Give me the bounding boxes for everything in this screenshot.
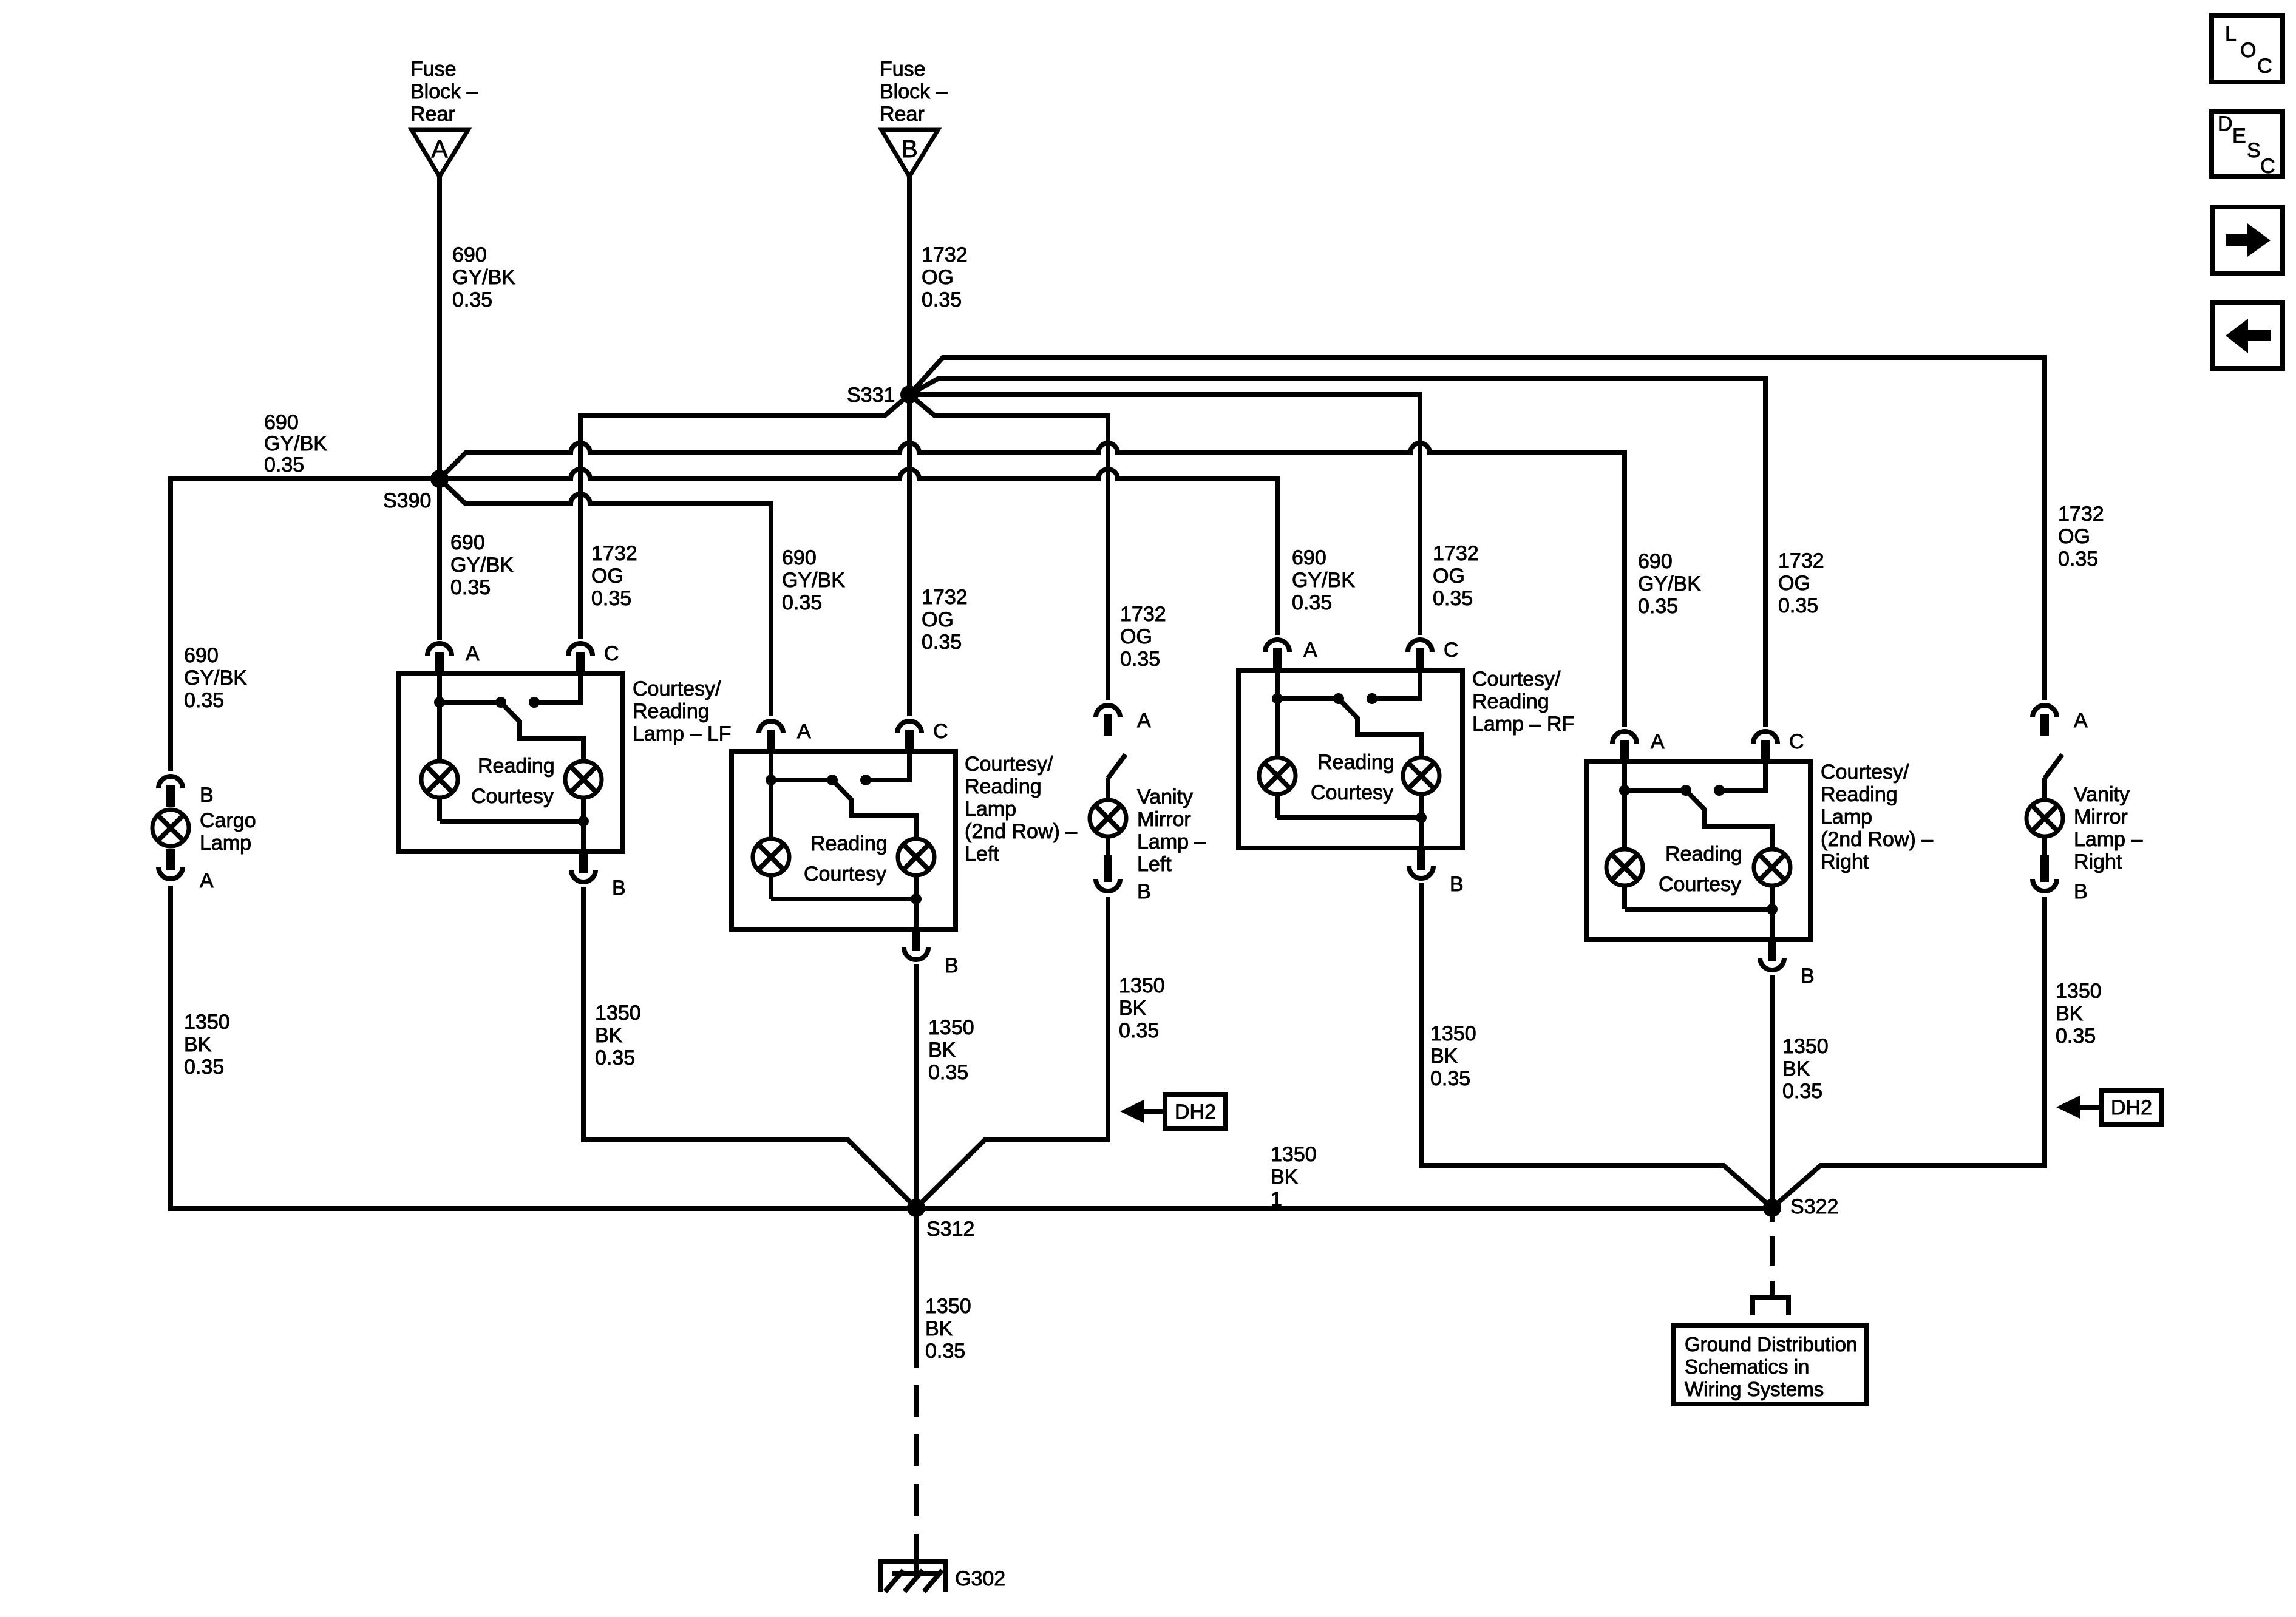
svg-text:A: A: [1303, 639, 1317, 662]
RF switch blade and wire to reading lamp: [1339, 699, 1421, 757]
svg-text:BK: BK: [1430, 1045, 1458, 1068]
RF lamp return wires: [1275, 794, 1280, 818]
LF connector B: [571, 870, 596, 882]
svg-text:Vanity: Vanity: [1137, 785, 1193, 808]
svg-text:L: L: [2225, 22, 2237, 46]
svg-text:Block –: Block –: [880, 80, 948, 103]
RF switch feed node dot: [1272, 693, 1283, 704]
svg-text:0.35: 0.35: [922, 288, 962, 311]
svg-text:OG: OG: [1120, 625, 1152, 648]
LF return node dot: [578, 816, 589, 827]
RF courtesy lamp: [1259, 758, 1296, 794]
RF connector A: [1265, 640, 1289, 652]
svg-text:0.35: 0.35: [184, 1056, 224, 1079]
RF switch common wire: [1277, 696, 1339, 701]
2nd row left switch common wire: [771, 778, 832, 782]
wire 1732 OG main branch from S331 to lamp RF C: [909, 395, 1420, 635]
svg-text:GY/BK: GY/BK: [184, 666, 247, 690]
2nd row right switch pivot contact dot: [1680, 785, 1691, 796]
svg-text:A: A: [200, 869, 214, 892]
svg-text:A: A: [431, 135, 448, 163]
LF reading lamp: [565, 761, 602, 798]
LF wire to connector B: [581, 821, 586, 852]
2nd row left internal wire from A: [769, 751, 773, 838]
vanity left switch blade: [1108, 754, 1126, 778]
2nd row left connector C: [897, 721, 922, 733]
2nd row right reading lamp: [1754, 849, 1790, 886]
splice S390 junction dot: [430, 470, 449, 488]
LF internal wire from C to switch contact: [534, 674, 580, 702]
svg-text:Courtesy: Courtesy: [1659, 873, 1741, 896]
svg-text:GY/BK: GY/BK: [782, 569, 845, 592]
svg-text:BK: BK: [2056, 1002, 2084, 1025]
svg-text:1350: 1350: [1782, 1035, 1829, 1058]
2nd row left wire to connector B: [914, 899, 919, 929]
2nd row left return node dot: [911, 893, 922, 904]
svg-text:BK: BK: [928, 1039, 956, 1062]
svg-text:B: B: [1801, 964, 1815, 988]
svg-text:Vanity: Vanity: [2074, 783, 2130, 806]
svg-text:0.35: 0.35: [591, 587, 631, 610]
svg-text:Schematics in: Schematics in: [1685, 1355, 1809, 1378]
svg-text:0.35: 0.35: [925, 1340, 965, 1363]
2nd row left reading lamp: [898, 839, 934, 875]
svg-text:Courtesy/: Courtesy/: [965, 753, 1053, 776]
svg-text:690: 690: [264, 411, 299, 434]
LF internal wire from A: [437, 674, 442, 761]
2nd row right connector B: [1760, 958, 1784, 970]
svg-text:Fuse: Fuse: [880, 58, 926, 81]
LF switch pivot contact dot: [495, 697, 506, 708]
dashed wire from S322 to ground distribution reference: [1770, 1208, 1775, 1222]
2nd row left switch pivot contact dot: [827, 775, 838, 785]
svg-text:Reading: Reading: [478, 754, 555, 778]
svg-text:C: C: [2260, 155, 2275, 178]
svg-text:Courtesy: Courtesy: [804, 863, 886, 886]
svg-text:0.35: 0.35: [1782, 1080, 1822, 1103]
svg-text:0.35: 0.35: [1292, 591, 1332, 614]
wire 1732 OG branch from S331 to vanity mirror left A: [909, 395, 1108, 700]
vanity left connector B: [1104, 855, 1112, 882]
svg-text:0.35: 0.35: [1119, 1019, 1159, 1042]
2nd row right switch common wire: [1625, 788, 1686, 793]
svg-text:OG: OG: [922, 608, 954, 631]
2nd row left switch right contact dot: [860, 775, 871, 785]
svg-text:0.35: 0.35: [1778, 594, 1818, 617]
vanity right switch blade: [2045, 754, 2062, 778]
svg-text:0.35: 0.35: [1638, 595, 1678, 618]
svg-text:690: 690: [1638, 550, 1673, 573]
2nd row right wire to connector B: [1770, 909, 1775, 940]
svg-text:Rear: Rear: [410, 103, 455, 126]
svg-text:Courtesy/: Courtesy/: [633, 677, 721, 700]
svg-text:B: B: [612, 876, 626, 900]
unterminated connector bracket: [1753, 1297, 1788, 1315]
svg-text:C: C: [1444, 639, 1459, 662]
svg-text:B: B: [901, 135, 917, 163]
svg-text:B: B: [1137, 880, 1151, 903]
LF connector C: [568, 643, 593, 656]
wire 1350 BK from 2nd row right B to S322: [1770, 975, 1775, 1208]
svg-text:Right: Right: [2074, 850, 2122, 873]
svg-text:Mirror: Mirror: [2074, 805, 2128, 829]
vanity mirror lamp left connector A: [1096, 705, 1120, 717]
wire 690 GY/BK main branch from S390 to lamp RF A: [440, 469, 1277, 635]
svg-text:Rear: Rear: [880, 103, 925, 126]
svg-text:Courtesy: Courtesy: [471, 785, 554, 808]
2nd row left lamp return wires: [769, 875, 773, 899]
2nd row right lamp return wires: [1622, 886, 1627, 909]
off-page reference DH2 box (right): [2101, 1090, 2162, 1124]
svg-text:E: E: [2232, 124, 2246, 147]
svg-text:Lamp – LF: Lamp – LF: [633, 722, 732, 745]
svg-text:B: B: [945, 954, 959, 977]
vanity mirror lamp right connector A: [2033, 705, 2057, 717]
wire 1350 BK bus between S312 and S322: [916, 1206, 1772, 1211]
RF switch pivot contact dot: [1333, 693, 1344, 704]
svg-text:1350: 1350: [2056, 980, 2102, 1003]
svg-text:OG: OG: [591, 564, 623, 588]
LF connector A: [427, 643, 452, 656]
svg-text:690: 690: [452, 243, 487, 266]
wire 1732 OG branch from S331 to LF C: [580, 395, 909, 639]
wire 1350 BK from 2nd row left B to S312: [914, 964, 919, 1208]
LF switch right contact dot: [529, 697, 540, 708]
svg-text:S312: S312: [926, 1218, 974, 1241]
wire 690 GY/BK from S390 down to LF A: [437, 479, 442, 640]
svg-text:1350: 1350: [1430, 1022, 1476, 1045]
svg-text:G302: G302: [955, 1567, 1005, 1590]
svg-text:GY/BK: GY/BK: [452, 266, 515, 289]
svg-text:Reading: Reading: [1472, 690, 1549, 713]
wire 690 GY/BK from fuse A to S390: [437, 177, 442, 479]
svg-text:Reading: Reading: [1317, 751, 1394, 774]
2nd row right switch right contact dot: [1714, 785, 1725, 796]
svg-text:B: B: [2074, 880, 2088, 903]
svg-text:C: C: [2257, 55, 2272, 78]
svg-text:C: C: [604, 642, 619, 665]
svg-text:0.35: 0.35: [2058, 547, 2098, 571]
svg-text:BK: BK: [1271, 1165, 1299, 1188]
svg-text:1350: 1350: [1119, 974, 1165, 997]
svg-text:OG: OG: [2058, 525, 2090, 548]
svg-text:A: A: [466, 642, 480, 665]
off-page reference DH2 arrow (left): [1143, 1109, 1165, 1114]
vanity right wire to connector B: [2042, 836, 2047, 855]
2nd row left switch feed node dot: [766, 775, 776, 785]
svg-text:0.35: 0.35: [1430, 1067, 1470, 1090]
svg-text:1350: 1350: [595, 1002, 641, 1025]
2nd row right return node dot: [1767, 904, 1778, 915]
LF switch blade and wire to reading lamp: [501, 702, 583, 761]
svg-text:1732: 1732: [922, 243, 968, 266]
wire 1732 OG from S331 down to lamp 2nd row left C: [907, 395, 912, 716]
2nd row right internal wire from A: [1622, 762, 1627, 849]
wire 690 GY/BK branch from S390 to lamp 2nd row right A: [440, 443, 1625, 727]
svg-text:Lamp – RF: Lamp – RF: [1472, 713, 1574, 736]
splice S331 junction dot: [900, 385, 919, 404]
svg-text:0.35: 0.35: [782, 591, 822, 614]
svg-text:1732: 1732: [1433, 542, 1479, 565]
svg-text:Block –: Block –: [410, 80, 478, 103]
vanity right connector B: [2040, 855, 2049, 882]
legend icon box LOC: [2212, 15, 2283, 82]
svg-text:Left: Left: [965, 842, 999, 866]
2nd row right switch blade and wire to reading lamp: [1686, 790, 1772, 849]
svg-text:Lamp: Lamp: [1821, 805, 1872, 829]
svg-text:0.35: 0.35: [1120, 648, 1160, 671]
cargo lamp: [152, 810, 189, 846]
off-page reference DH2 arrow (right): [2079, 1105, 2101, 1110]
courtesy/reading lamp box 2nd row left: [732, 751, 956, 929]
svg-text:0.35: 0.35: [922, 631, 962, 654]
svg-text:690: 690: [1292, 546, 1326, 569]
svg-text:690: 690: [184, 644, 219, 667]
2nd row left connector A: [759, 721, 783, 733]
svg-text:1350: 1350: [925, 1295, 971, 1318]
svg-text:S390: S390: [383, 489, 431, 512]
fuse block rear triangle connector A: [412, 130, 468, 177]
svg-text:0.35: 0.35: [264, 453, 304, 476]
svg-text:Cargo: Cargo: [200, 809, 256, 832]
RF wire to connector B: [1419, 818, 1424, 848]
svg-text:Fuse: Fuse: [410, 58, 457, 81]
svg-text:GY/BK: GY/BK: [450, 554, 514, 577]
courtesy/reading lamp box 2nd row right: [1586, 762, 1810, 940]
2nd row left internal wire from C to switch contact: [866, 751, 909, 780]
wire 690 GY/BK branch from S390 to lamp 2nd row left A: [440, 479, 771, 716]
svg-text:1350: 1350: [928, 1016, 974, 1039]
svg-text:0.35: 0.35: [595, 1046, 635, 1070]
svg-text:BK: BK: [1782, 1057, 1810, 1080]
off-page reference DH2 box (left): [1165, 1094, 1226, 1128]
2nd row right courtesy lamp: [1606, 849, 1643, 886]
svg-text:Lamp: Lamp: [965, 798, 1016, 821]
RF internal wire from C to switch contact: [1372, 670, 1420, 699]
2nd row right switch feed node dot: [1619, 785, 1630, 796]
svg-text:Left: Left: [1137, 853, 1172, 876]
vanity right lamp: [2042, 778, 2047, 800]
RF internal wire from A: [1275, 670, 1280, 757]
fuse block rear triangle connector B: [881, 130, 938, 177]
2nd row left courtesy lamp: [753, 839, 789, 875]
svg-text:0.35: 0.35: [2056, 1025, 2096, 1048]
svg-text:BK: BK: [184, 1033, 212, 1056]
2nd row right connector A: [1612, 731, 1637, 744]
svg-text:0.35: 0.35: [928, 1061, 968, 1084]
svg-text:OG: OG: [1778, 572, 1810, 595]
svg-text:Courtesy/: Courtesy/: [1472, 668, 1561, 691]
svg-text:1732: 1732: [1778, 549, 1824, 572]
cargo lamp connector B: [158, 776, 183, 788]
svg-text:BK: BK: [925, 1317, 953, 1340]
svg-text:690: 690: [450, 531, 485, 554]
LF switch feed node dot: [434, 697, 445, 708]
wire 690 GY/BK branch from S390 to cargo lamp B: [171, 479, 440, 771]
RF reading lamp: [1403, 758, 1439, 794]
svg-text:Mirror: Mirror: [1137, 808, 1191, 831]
svg-text:C: C: [1789, 730, 1804, 753]
dashed wire to ground G302: [914, 1385, 919, 1417]
wire 1350 BK from cargo lamp to ground bus: [171, 886, 916, 1209]
wire 1350 BK from vanity left B to S312: [916, 897, 1108, 1208]
svg-text:C: C: [933, 720, 948, 743]
RF connector B: [1409, 866, 1433, 878]
wire 1732 OG branch from S331 to vanity mirror right A: [909, 358, 2045, 700]
svg-text:Reading: Reading: [965, 775, 1042, 798]
svg-text:1732: 1732: [591, 542, 637, 565]
LF courtesy lamp: [421, 761, 458, 798]
2nd row right internal wire from C to switch contact: [1719, 762, 1765, 790]
svg-text:1732: 1732: [922, 586, 968, 609]
svg-text:OG: OG: [1433, 564, 1465, 588]
svg-text:Right: Right: [1821, 850, 1869, 873]
svg-text:Lamp: Lamp: [200, 832, 251, 855]
2nd row left switch blade and wire to reading lamp: [832, 780, 916, 838]
vanity left lamp: [1106, 778, 1110, 800]
svg-text:0.35: 0.35: [1433, 587, 1473, 610]
svg-text:O: O: [2240, 39, 2256, 62]
svg-text:Courtesy/: Courtesy/: [1821, 761, 1909, 784]
ground distribution schematics reference box: [1674, 1326, 1867, 1404]
svg-text:Reading: Reading: [1821, 783, 1898, 806]
svg-text:S331: S331: [847, 384, 895, 407]
svg-text:Lamp –: Lamp –: [1137, 830, 1206, 853]
LF lamp return wires: [437, 798, 442, 821]
svg-text:GY/BK: GY/BK: [264, 432, 327, 455]
LF switch common wire: [440, 700, 501, 705]
splice S312 junction dot: [907, 1199, 925, 1217]
svg-text:690: 690: [782, 546, 817, 569]
2nd row left connector B: [904, 947, 928, 960]
svg-text:A: A: [1137, 709, 1151, 732]
2nd row right connector C: [1753, 731, 1778, 744]
wire 1350 BK from RF B to S322: [1421, 883, 1772, 1208]
RF switch right contact dot: [1367, 693, 1377, 704]
courtesy/reading lamp box LF: [399, 674, 623, 852]
svg-text:BK: BK: [595, 1024, 623, 1047]
legend icon right arrow: [2212, 207, 2283, 273]
svg-text:1350: 1350: [184, 1011, 230, 1034]
svg-text:GY/BK: GY/BK: [1292, 569, 1355, 592]
svg-text:A: A: [1651, 730, 1665, 753]
svg-text:1732: 1732: [2058, 503, 2104, 526]
svg-text:Reading: Reading: [1665, 842, 1742, 866]
splice S322 junction dot: [1763, 1199, 1781, 1217]
svg-text:0.35: 0.35: [184, 689, 224, 712]
svg-text:A: A: [2074, 709, 2088, 732]
svg-text:OG: OG: [922, 266, 954, 289]
cargo lamp connector A: [166, 849, 175, 870]
ground symbol G302: [881, 1562, 945, 1592]
wire 1732 OG from fuse B to S331: [907, 177, 912, 395]
svg-text:S: S: [2247, 139, 2261, 162]
wire 1350 BK from vanity right B to S322: [1772, 897, 2045, 1208]
RF connector C: [1408, 640, 1432, 652]
svg-text:Reading: Reading: [633, 700, 710, 723]
svg-text:1: 1: [1271, 1188, 1282, 1211]
svg-text:Wiring Systems: Wiring Systems: [1685, 1378, 1824, 1400]
courtesy/reading lamp box RF: [1238, 670, 1462, 848]
svg-text:DH2: DH2: [2111, 1096, 2152, 1119]
svg-text:BK: BK: [1119, 997, 1147, 1020]
svg-text:A: A: [797, 720, 811, 743]
svg-text:B: B: [1450, 873, 1464, 896]
svg-text:B: B: [200, 784, 214, 807]
svg-text:1732: 1732: [1120, 603, 1166, 626]
vanity left wire to connector B: [1106, 836, 1110, 855]
svg-text:Reading: Reading: [810, 832, 888, 855]
wire 1350 BK from S312 toward G302: [914, 1208, 919, 1368]
svg-text:1350: 1350: [1271, 1143, 1317, 1166]
wire 1732 OG branch from S331 to lamp 2nd row right C: [909, 379, 1765, 727]
svg-text:D: D: [2218, 112, 2233, 135]
svg-text:DH2: DH2: [1175, 1100, 1216, 1124]
wire 1350 BK from LF B to S312: [583, 887, 916, 1208]
legend icon left arrow: [2212, 303, 2283, 368]
svg-text:0.35: 0.35: [450, 576, 491, 599]
svg-text:Ground Distribution: Ground Distribution: [1685, 1333, 1857, 1355]
svg-text:S322: S322: [1790, 1195, 1838, 1218]
svg-text:GY/BK: GY/BK: [1638, 572, 1701, 595]
legend icon box DESC: [2212, 111, 2283, 177]
svg-text:(2nd Row) –: (2nd Row) –: [965, 820, 1077, 843]
svg-text:Courtesy: Courtesy: [1311, 781, 1393, 804]
svg-text:0.35: 0.35: [452, 288, 492, 311]
svg-text:(2nd Row) –: (2nd Row) –: [1821, 828, 1933, 851]
RF return node dot: [1416, 812, 1427, 823]
svg-text:Lamp –: Lamp –: [2074, 828, 2142, 851]
